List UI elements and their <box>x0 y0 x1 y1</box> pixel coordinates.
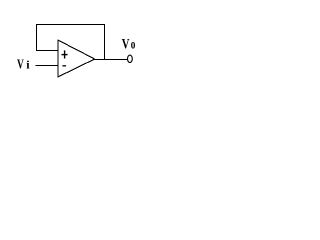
wire: feedback top horizontal <box>36 24 105 26</box>
svg-text:V: V <box>122 36 130 52</box>
svg-text:V: V <box>17 56 24 72</box>
op-amp U1 triangle top diagonal <box>58 40 95 59</box>
op-amp plus sign (top input) <box>62 54 68 55</box>
wire: non-inverting input (top) <box>36 50 59 52</box>
op-amp minus sign (bottom input) <box>62 65 66 66</box>
op-amp U1 triangle left edge <box>57 40 59 78</box>
wire: feedback left vertical <box>36 24 38 51</box>
wire: feedback right vertical <box>104 24 106 60</box>
svg-text:i: i <box>26 58 30 72</box>
svg-text:o: o <box>131 35 136 52</box>
output terminal ellipse <box>127 55 132 62</box>
wire: inverting input (bottom) from Vi <box>36 65 59 67</box>
op-amp U1 triangle bottom diagonal <box>58 59 95 77</box>
wire: output <box>94 59 128 61</box>
